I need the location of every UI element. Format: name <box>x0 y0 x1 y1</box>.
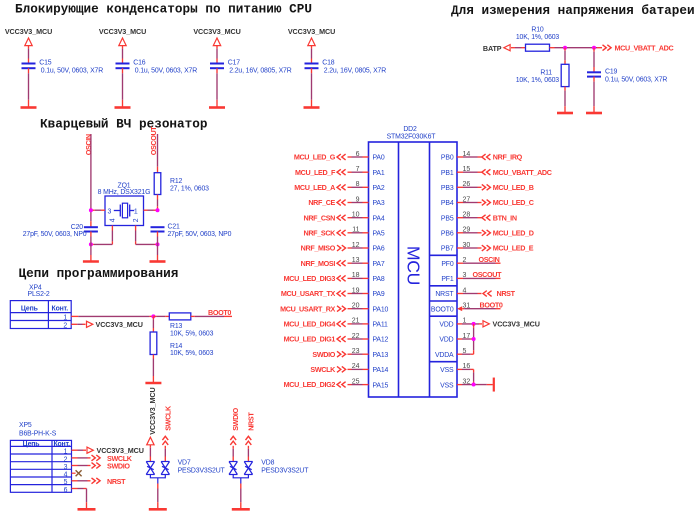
port SWCLK <box>310 365 345 374</box>
power flag VCC3V3_MCU for C15 <box>5 27 52 46</box>
svg-text:VCC3V3_MCU: VCC3V3_MCU <box>148 387 157 434</box>
svg-text:VCC3V3_MCU: VCC3V3_MCU <box>288 27 335 36</box>
port NRF_CE <box>308 198 345 207</box>
svg-text:STM32F030K6T: STM32F030K6T <box>387 134 437 141</box>
svg-text:MCU_LED_D: MCU_LED_D <box>493 228 534 237</box>
svg-text:29: 29 <box>463 227 471 234</box>
svg-text:11: 11 <box>352 227 359 234</box>
svg-text:4: 4 <box>110 218 117 222</box>
svg-text:2: 2 <box>64 456 68 463</box>
svg-text:PF1: PF1 <box>441 276 454 283</box>
pin 9 PA3 wire <box>348 196 369 203</box>
pin 10 PA4 wire <box>348 211 369 218</box>
ground <box>115 106 131 109</box>
svg-text:4: 4 <box>463 287 467 294</box>
svg-text:NRST: NRST <box>497 289 516 298</box>
port NRF_MOSI <box>301 259 346 268</box>
svg-text:5: 5 <box>64 479 68 486</box>
port SWDIO <box>92 462 131 471</box>
svg-text:0.1u, 50V, 0603, X7R: 0.1u, 50V, 0603, X7R <box>135 67 197 74</box>
svg-text:PA14: PA14 <box>373 367 389 374</box>
crystal ZQ1 <box>98 183 151 226</box>
port MCU_LED_DIG4 <box>284 319 346 328</box>
svg-text:PA2: PA2 <box>373 185 385 192</box>
power flag VCC3V3_MCU vertical <box>147 387 158 444</box>
svg-text:NRST: NRST <box>246 412 255 431</box>
junction <box>472 383 476 387</box>
svg-text:C21: C21 <box>168 224 181 231</box>
ground <box>493 378 495 392</box>
wire crystal pin2 <box>136 226 158 245</box>
svg-text:SWCLK: SWCLK <box>310 365 336 374</box>
port NRST <box>483 289 516 298</box>
svg-text:2.2u, 16V, 0805, X7R: 2.2u, 16V, 0805, X7R <box>229 67 291 74</box>
svg-text:PA11: PA11 <box>373 322 389 329</box>
svg-text:VCC3V3_MCU: VCC3V3_MCU <box>193 27 240 36</box>
wire <box>28 68 30 107</box>
svg-text:Цепь: Цепь <box>21 306 38 313</box>
svg-text:C15: C15 <box>39 60 52 67</box>
svg-text:Конт.: Конт. <box>52 306 69 313</box>
svg-text:1: 1 <box>64 449 68 456</box>
wire XP5 pin3 <box>72 465 91 467</box>
svg-text:18: 18 <box>352 272 360 279</box>
wire <box>550 47 603 49</box>
wire crystal pin3 <box>91 209 105 211</box>
svg-text:2.2u, 16V, 0805, X7R: 2.2u, 16V, 0805, X7R <box>324 67 386 74</box>
svg-text:VCC3V3_MCU: VCC3V3_MCU <box>96 320 143 329</box>
junction <box>563 46 567 50</box>
wire <box>511 47 526 49</box>
port MCU_LED_DIG2 <box>284 380 346 389</box>
svg-text:10: 10 <box>352 211 360 218</box>
svg-text:C19: C19 <box>605 69 618 76</box>
svg-text:MCU_LED_E: MCU_LED_E <box>493 244 534 253</box>
port NRF_CSN <box>304 213 346 222</box>
svg-text:MCU_LED_F: MCU_LED_F <box>295 168 336 177</box>
resistor R14 <box>150 332 213 357</box>
svg-text:PA12: PA12 <box>373 337 389 344</box>
svg-text:3: 3 <box>108 208 112 215</box>
svg-text:C17: C17 <box>228 60 241 67</box>
wire <box>28 46 30 64</box>
ground <box>304 106 320 109</box>
wire crystal pin1 <box>144 209 158 211</box>
port MCU_LED_D <box>482 228 534 237</box>
svg-text:6: 6 <box>64 487 68 494</box>
pin 4 NRST wire <box>457 287 482 294</box>
svg-text:27: 27 <box>463 196 471 203</box>
pin 26 PB3 wire <box>457 181 482 188</box>
svg-text:BTN_IN: BTN_IN <box>493 213 517 222</box>
ground <box>150 260 166 263</box>
svg-text:MCU_LED_C: MCU_LED_C <box>493 198 534 207</box>
resistor R13 <box>169 313 213 338</box>
svg-text:2: 2 <box>463 257 467 264</box>
svg-text:VCC3V3_MCU: VCC3V3_MCU <box>493 319 540 328</box>
svg-text:NRST: NRST <box>435 291 454 298</box>
svg-text:R11: R11 <box>540 70 552 77</box>
svg-text:VD8: VD8 <box>261 460 274 467</box>
port MCU_USART_RX <box>280 304 346 313</box>
svg-text:20: 20 <box>352 303 360 310</box>
pin 20 PA10 wire <box>348 303 369 310</box>
wire <box>157 484 159 509</box>
wire <box>247 446 249 462</box>
pin 16 VSS wire <box>457 363 474 370</box>
net label SWCLK vertical <box>162 405 172 445</box>
wire <box>122 68 124 107</box>
svg-text:Конт.: Конт. <box>53 441 70 448</box>
svg-text:NRF_MOSI: NRF_MOSI <box>301 259 336 268</box>
port MCU_VBATT_ADC <box>482 168 552 177</box>
wire XP5 pin6 to ground <box>72 489 87 509</box>
svg-text:R12: R12 <box>170 178 183 185</box>
wire <box>152 355 154 383</box>
svg-text:25: 25 <box>352 378 360 385</box>
wire <box>157 195 159 211</box>
diode VD8 <box>229 460 309 484</box>
svg-text:Блокирующие конденсаторы по пи: Блокирующие конденсаторы по питанию CPU <box>15 2 312 17</box>
svg-text:27, 1%, 0603: 27, 1%, 0603 <box>170 186 209 193</box>
wire XP4 pin1 to R13 <box>71 315 153 317</box>
diode VD7 <box>146 460 225 484</box>
svg-text:10K, 1%, 0603: 10K, 1%, 0603 <box>516 34 560 41</box>
svg-text:SWDIO: SWDIO <box>312 350 335 359</box>
svg-text:BOOT0: BOOT0 <box>480 301 503 310</box>
port MCU_LED_F <box>295 168 346 177</box>
port MCU_LED_B <box>482 183 534 192</box>
svg-text:NRST: NRST <box>107 477 126 486</box>
wire <box>311 68 313 107</box>
svg-text:MCU: MCU <box>404 246 424 285</box>
pin 14 PB0 wire <box>457 151 482 158</box>
pin 30 PB7 wire <box>457 242 482 249</box>
svg-text:MCU_LED_G: MCU_LED_G <box>294 153 336 162</box>
pin 7 PA1 wire <box>348 166 369 173</box>
junction <box>156 242 160 246</box>
svg-text:VCC3V3_MCU: VCC3V3_MCU <box>5 27 52 36</box>
wire <box>157 232 159 262</box>
svg-text:VDD: VDD <box>439 322 453 329</box>
svg-text:PA7: PA7 <box>373 261 385 268</box>
svg-text:Цепи программирования: Цепи программирования <box>19 266 179 281</box>
pin 29 PB6 wire <box>457 227 482 234</box>
ground <box>78 508 96 511</box>
svg-text:14: 14 <box>463 151 471 158</box>
svg-text:PESD3V3S2UT: PESD3V3S2UT <box>178 468 226 475</box>
net label NRST vertical <box>246 412 256 445</box>
capacitor C16 <box>116 60 198 75</box>
ground <box>209 106 225 109</box>
pin 22 PA12 wire <box>348 333 369 340</box>
svg-text:PA6: PA6 <box>373 246 385 253</box>
svg-text:VCC3V3_MCU: VCC3V3_MCU <box>99 27 146 36</box>
port MCU_VBATT_ADC <box>603 44 674 53</box>
port NRF_MISO <box>301 244 346 253</box>
pin 28 PB5 wire <box>457 211 482 218</box>
svg-text:NRF_MISO: NRF_MISO <box>301 244 336 253</box>
svg-text:21: 21 <box>352 318 360 325</box>
svg-text:SWCLK: SWCLK <box>163 405 172 431</box>
svg-text:PESD3V3S2UT: PESD3V3S2UT <box>261 468 309 475</box>
wire VSS bus vertical <box>473 369 475 384</box>
svg-text:19: 19 <box>352 287 360 294</box>
svg-text:23: 23 <box>352 348 360 355</box>
svg-text:2: 2 <box>133 218 140 222</box>
MCU U-body DD2 STM32F030K6T <box>369 126 458 397</box>
svg-text:16: 16 <box>463 363 471 370</box>
wire XP5 pin2 <box>72 457 91 459</box>
wire <box>216 46 218 64</box>
pin 8 PA2 wire <box>348 181 369 188</box>
capacitor C20 <box>23 224 98 238</box>
svg-text:NRF_SCK: NRF_SCK <box>304 228 337 237</box>
wire <box>564 87 566 113</box>
svg-text:VSS: VSS <box>440 367 454 374</box>
port MCU_LED_DIG3 <box>284 274 346 283</box>
port NRF_SCK <box>304 228 346 237</box>
connector XP5 <box>10 422 71 494</box>
pin 31 BOOT0 wire with net label BOOT0 <box>457 301 503 312</box>
svg-text:B6B-PH-K-S: B6B-PH-K-S <box>19 431 57 438</box>
svg-text:1: 1 <box>63 315 67 322</box>
wire XP5 pin5 <box>72 480 91 482</box>
svg-text:1: 1 <box>134 208 138 215</box>
connector XP4 <box>10 285 71 330</box>
wire <box>122 46 124 64</box>
svg-text:PLS2-2: PLS2-2 <box>28 291 50 298</box>
ground <box>586 112 602 115</box>
net label BOOT0 with wire <box>191 308 232 317</box>
wire <box>90 232 92 262</box>
capacitor C17 <box>210 60 292 75</box>
junction <box>592 46 596 50</box>
wire <box>232 446 234 462</box>
port SWDIO <box>312 350 345 359</box>
svg-text:NRF_CE: NRF_CE <box>308 198 335 207</box>
svg-text:10K, 5%, 0603: 10K, 5%, 0603 <box>170 331 214 338</box>
capacitor C19 <box>587 69 667 84</box>
svg-text:NRF_CSN: NRF_CSN <box>304 213 336 222</box>
port MCU_USART_TX <box>281 289 346 298</box>
svg-text:1: 1 <box>463 318 467 325</box>
svg-text:PF0: PF0 <box>441 261 454 268</box>
svg-text:VSS: VSS <box>440 382 454 389</box>
svg-text:PA13: PA13 <box>373 352 389 359</box>
svg-text:MCU_LED_DIG3: MCU_LED_DIG3 <box>284 274 336 283</box>
pin 32 VSS wire to ground <box>457 378 493 385</box>
svg-text:R10: R10 <box>531 27 544 34</box>
svg-text:MCU_LED_DIG2: MCU_LED_DIG2 <box>284 380 336 389</box>
wire <box>311 46 313 64</box>
ground <box>149 508 167 511</box>
svg-text:Кварцевый ВЧ резонатор: Кварцевый ВЧ резонатор <box>40 117 208 132</box>
svg-text:Цепь: Цепь <box>23 441 40 448</box>
svg-text:PA10: PA10 <box>373 306 389 313</box>
svg-text:PA9: PA9 <box>373 291 385 298</box>
svg-text:7: 7 <box>356 166 360 173</box>
svg-text:31: 31 <box>463 303 471 310</box>
svg-text:PB4: PB4 <box>441 200 454 207</box>
port NRST <box>92 477 127 486</box>
svg-text:8: 8 <box>356 181 360 188</box>
pin 24 PA14 wire <box>348 363 369 370</box>
svg-text:15: 15 <box>463 166 471 173</box>
svg-text:3: 3 <box>64 464 68 471</box>
capacitor C21 <box>151 224 232 239</box>
svg-text:XP5: XP5 <box>19 422 32 429</box>
svg-text:0.1u, 50V, 0603, X7R: 0.1u, 50V, 0603, X7R <box>605 77 667 84</box>
wire R13 junction down to R14 <box>152 316 154 332</box>
ground <box>232 508 250 511</box>
pin 5 VDDA wire <box>457 348 474 355</box>
svg-text:5: 5 <box>463 348 467 355</box>
svg-text:MCU_LED_B: MCU_LED_B <box>493 183 534 192</box>
wire <box>153 315 169 317</box>
resistor R11 <box>516 64 569 86</box>
svg-text:MCU_LED_DIG1: MCU_LED_DIG1 <box>284 335 336 344</box>
port BATP <box>483 44 510 53</box>
svg-text:OSCIN: OSCIN <box>479 255 500 264</box>
wire <box>593 77 595 113</box>
power flag VCC3V3_MCU for C17 <box>193 27 240 46</box>
net label SWDIO vertical <box>230 407 240 444</box>
port MCU_LED_A <box>294 183 345 192</box>
svg-text:BOOT0: BOOT0 <box>431 306 454 313</box>
svg-text:2: 2 <box>63 323 67 330</box>
svg-text:PB3: PB3 <box>441 185 454 192</box>
svg-text:R14: R14 <box>170 343 183 350</box>
pin 19 PA9 wire <box>348 287 369 294</box>
port VCC3V3_MCU <box>87 320 143 329</box>
svg-text:VD7: VD7 <box>178 460 191 467</box>
svg-text:SWDIO: SWDIO <box>231 407 240 430</box>
svg-text:PA1: PA1 <box>373 170 385 177</box>
ground <box>21 106 37 109</box>
svg-text:C18: C18 <box>322 60 335 67</box>
svg-text:12: 12 <box>352 242 360 249</box>
svg-text:NRF_IRQ: NRF_IRQ <box>493 153 523 162</box>
no-connect XP5 pin4 <box>72 470 82 476</box>
pin 6 PA0 wire <box>348 151 369 158</box>
svg-text:22: 22 <box>352 333 360 340</box>
ground <box>557 112 573 115</box>
pin 27 PB4 wire <box>457 196 482 203</box>
ground <box>83 260 99 263</box>
svg-text:VDD: VDD <box>439 337 453 344</box>
svg-text:VDDA: VDDA <box>435 352 454 359</box>
svg-text:PA5: PA5 <box>373 231 385 238</box>
port MCU_LED_DIG1 <box>284 335 346 344</box>
pin 3 PF1 wire with net label OSCOUT <box>457 270 502 279</box>
port MCU_LED_G <box>294 153 346 162</box>
junction <box>472 337 476 341</box>
svg-text:13: 13 <box>352 257 360 264</box>
svg-text:17: 17 <box>463 333 471 340</box>
resistor R10 <box>516 27 560 52</box>
wire OSCOUT vertical <box>157 134 159 173</box>
pin 12 PA6 wire <box>348 242 369 249</box>
port MCU_LED_E <box>482 244 534 253</box>
svg-text:MCU_USART_TX: MCU_USART_TX <box>281 289 336 298</box>
pin 13 PA7 wire <box>348 257 369 264</box>
svg-text:SWDIO: SWDIO <box>107 462 130 471</box>
power flag VCC3V3_MCU for C18 <box>288 27 335 46</box>
wire XP5 pin1 <box>72 449 87 451</box>
power flag VCC3V3_MCU <box>483 319 540 328</box>
svg-text:26: 26 <box>463 181 471 188</box>
svg-text:MCU_VBATT_ADC: MCU_VBATT_ADC <box>493 168 552 177</box>
port MCU_LED_C <box>482 198 534 207</box>
port SWCLK <box>92 454 133 463</box>
svg-text:PA4: PA4 <box>373 215 385 222</box>
port VCC3V3_MCU <box>87 446 144 455</box>
pin 25 PA15 wire <box>348 378 369 385</box>
svg-text:32: 32 <box>463 378 471 385</box>
pin 17 VDD wire <box>457 333 474 340</box>
svg-text:PA3: PA3 <box>373 200 385 207</box>
junction <box>156 208 160 212</box>
svg-text:27pF, 50V, 0603, NP0: 27pF, 50V, 0603, NP0 <box>168 231 232 238</box>
wire <box>564 48 566 65</box>
svg-text:3: 3 <box>463 272 467 279</box>
pin 11 PA5 wire <box>348 227 369 234</box>
svg-text:30: 30 <box>463 242 471 249</box>
svg-text:0.1u, 50V, 0603, X7R: 0.1u, 50V, 0603, X7R <box>41 67 103 74</box>
pin 15 PB1 wire <box>457 166 482 173</box>
svg-text:10K, 5%, 0603: 10K, 5%, 0603 <box>170 350 214 357</box>
svg-text:27pF, 50V, 0603, NP0: 27pF, 50V, 0603, NP0 <box>23 231 87 238</box>
svg-text:C20: C20 <box>71 224 84 231</box>
svg-text:R13: R13 <box>170 323 183 330</box>
junction <box>89 208 93 212</box>
svg-text:28: 28 <box>463 211 471 218</box>
pin 1 VDD wire <box>457 318 482 325</box>
svg-text:PA15: PA15 <box>373 382 389 389</box>
wire OSCIN vertical <box>90 134 92 227</box>
junction <box>472 322 476 326</box>
pin 23 PA13 wire <box>348 348 369 355</box>
pin 21 PA11 wire <box>348 318 369 325</box>
svg-text:Для измерения напряжения батар: Для измерения напряжения батареи <box>451 3 695 18</box>
svg-text:MCU_LED_DIG4: MCU_LED_DIG4 <box>284 319 336 328</box>
svg-text:6: 6 <box>356 151 360 158</box>
wire <box>593 48 595 72</box>
wire <box>164 446 166 462</box>
junction <box>89 242 93 246</box>
svg-text:MCU_LED_A: MCU_LED_A <box>294 183 335 192</box>
svg-text:MCU_VBATT_ADC: MCU_VBATT_ADC <box>615 44 674 53</box>
svg-text:OSCOUT: OSCOUT <box>473 270 503 279</box>
svg-text:PB0: PB0 <box>441 155 454 162</box>
svg-text:PB5: PB5 <box>441 215 454 222</box>
svg-text:4: 4 <box>64 472 68 479</box>
junction <box>151 314 155 318</box>
svg-text:BATP: BATP <box>483 44 502 53</box>
wire <box>149 445 151 462</box>
wire <box>216 68 218 107</box>
svg-text:PB7: PB7 <box>441 246 454 253</box>
pin 18 PA8 wire <box>348 272 369 279</box>
svg-text:9: 9 <box>356 196 360 203</box>
svg-text:PA8: PA8 <box>373 276 385 283</box>
svg-text:PB6: PB6 <box>441 231 454 238</box>
svg-text:PB1: PB1 <box>441 170 454 177</box>
svg-text:PA0: PA0 <box>373 155 385 162</box>
svg-text:10K, 1%, 0603: 10K, 1%, 0603 <box>516 77 560 84</box>
capacitor C18 <box>305 60 387 75</box>
